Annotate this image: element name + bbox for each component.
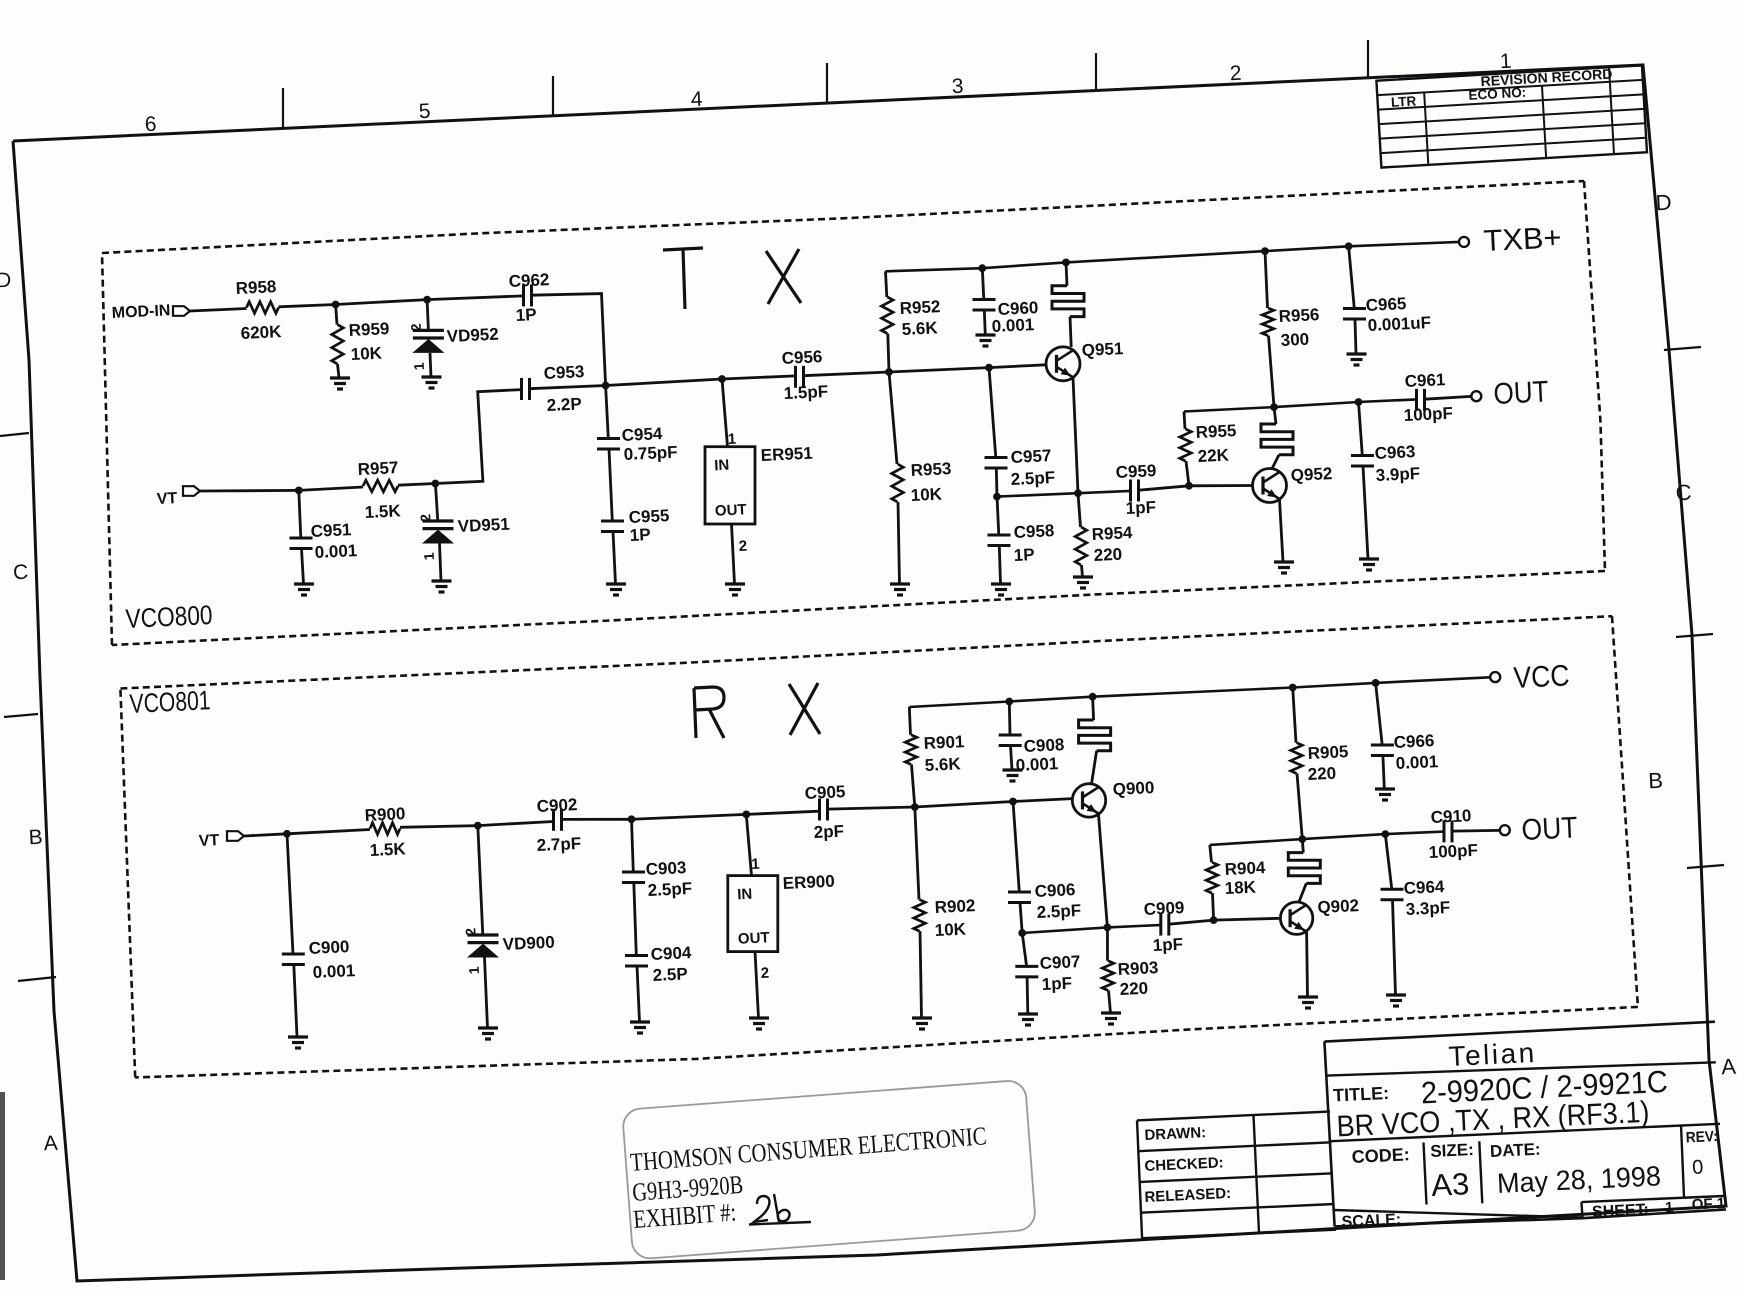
wire R952 bottom lead bbox=[888, 334, 889, 373]
svg-text:0: 0 bbox=[1692, 1156, 1704, 1178]
svg-text:1: 1 bbox=[466, 966, 482, 975]
svg-text:1: 1 bbox=[421, 552, 437, 561]
svg-text:R957: R957 bbox=[357, 458, 398, 479]
svg-text:THOMSON CONSUMER ELECTRONIC: THOMSON CONSUMER ELECTRONIC bbox=[629, 1121, 987, 1177]
wire VD900 to ground bbox=[485, 958, 488, 1029]
ground under VD951 bbox=[432, 579, 452, 582]
wire R953 to ground bbox=[898, 502, 900, 584]
wire resonator2 to Q952 collector bbox=[1272, 455, 1279, 469]
resistor R958 bbox=[247, 302, 279, 314]
junction node R956/resonator2 bbox=[1270, 403, 1278, 411]
wire base rail to Q902 bbox=[1214, 918, 1281, 920]
svg-text:3: 3 bbox=[951, 75, 964, 99]
wire R959 to ground bbox=[338, 364, 340, 378]
svg-text:R959: R959 bbox=[348, 319, 389, 340]
wire Q902 emitter to ground bbox=[1305, 932, 1309, 997]
svg-text:2.5P: 2.5P bbox=[652, 964, 688, 985]
wire C959 to base rail bbox=[1139, 486, 1190, 490]
wire C906 top lead bbox=[1013, 802, 1019, 893]
ground under C955 bbox=[606, 582, 626, 585]
ground under C908 bbox=[1003, 768, 1023, 771]
wire R902 top lead bbox=[915, 807, 919, 900]
zone tick right C/B bbox=[1676, 634, 1713, 637]
svg-text:2pF: 2pF bbox=[813, 822, 844, 842]
wire R957 to VD951 node bbox=[398, 484, 435, 486]
terminal TXB+ bbox=[1459, 237, 1469, 247]
wire to R957 bbox=[299, 487, 363, 490]
svg-text:1P: 1P bbox=[515, 305, 537, 325]
svg-text:R901: R901 bbox=[923, 732, 964, 753]
terminal OUT (TX) bbox=[1471, 391, 1481, 401]
wire C964 to ground bbox=[1393, 900, 1396, 995]
svg-text:REV:: REV: bbox=[1685, 1128, 1718, 1146]
svg-text:C909: C909 bbox=[1143, 898, 1184, 919]
svg-text:1P: 1P bbox=[629, 525, 651, 545]
junction node VD951 top bbox=[432, 480, 440, 488]
svg-text:22K: 22K bbox=[1197, 446, 1230, 466]
svg-text:R905: R905 bbox=[1307, 742, 1348, 763]
zone tick left D/C bbox=[0, 433, 29, 436]
wire Q900 emitter down bbox=[1099, 814, 1108, 927]
capacitor C953 bbox=[520, 378, 523, 400]
svg-text:ER951: ER951 bbox=[760, 444, 813, 465]
svg-text:IN: IN bbox=[714, 457, 730, 475]
drawn/checked/released table bbox=[1137, 1112, 1330, 1121]
junction node R959 top bbox=[332, 301, 340, 309]
big letter T bbox=[663, 248, 703, 250]
wire R954 to ground bbox=[1082, 565, 1083, 577]
wire C954 to C955 bbox=[609, 449, 612, 521]
svg-text:OUT: OUT bbox=[715, 501, 747, 519]
svg-text:IN: IN bbox=[737, 886, 753, 904]
svg-text:RELEASED:: RELEASED: bbox=[1144, 1185, 1231, 1206]
svg-text:ER900: ER900 bbox=[782, 872, 835, 893]
svg-text:1: 1 bbox=[1499, 50, 1512, 74]
wire C903 to C904 bbox=[634, 883, 637, 956]
capacitor C905 bbox=[818, 799, 821, 821]
capacitor C902 bbox=[552, 809, 555, 831]
exhibit underline bbox=[749, 1222, 811, 1225]
svg-text:C963: C963 bbox=[1374, 442, 1415, 463]
svg-text:R953: R953 bbox=[910, 459, 951, 480]
wire VT node up to C953 bbox=[435, 390, 521, 484]
wire node A to C954 bbox=[606, 386, 609, 439]
svg-text:6: 6 bbox=[144, 113, 157, 137]
svg-text:SCALE:: SCALE: bbox=[1341, 1211, 1401, 1231]
junction node R904 bottom bbox=[1210, 916, 1218, 924]
wire C960 top lead bbox=[982, 268, 984, 299]
ground under C966 bbox=[1375, 787, 1395, 790]
svg-text:VCO801: VCO801 bbox=[129, 685, 211, 719]
wire R905 bottom lead bbox=[1297, 774, 1302, 840]
svg-text:LTR: LTR bbox=[1391, 93, 1417, 109]
wire R901 top lead bbox=[909, 707, 910, 735]
svg-text:300: 300 bbox=[1280, 330, 1309, 350]
zone tick top 4/5 bbox=[552, 76, 554, 116]
svg-text:VD900: VD900 bbox=[502, 933, 555, 954]
svg-text:1.5K: 1.5K bbox=[364, 501, 401, 522]
wire C958 top lead bbox=[997, 497, 999, 535]
junction node R903/C909 bbox=[1104, 924, 1112, 932]
titleblock line under Telian bbox=[1327, 1062, 1716, 1075]
svg-text:R954: R954 bbox=[1091, 523, 1133, 544]
ground under R903 bbox=[1101, 1011, 1121, 1014]
ground under VD900 bbox=[478, 1026, 498, 1029]
svg-text:220: 220 bbox=[1307, 764, 1336, 784]
svg-text:TXB+: TXB+ bbox=[1483, 221, 1562, 258]
svg-text:SHEET:: SHEET: bbox=[1592, 1201, 1650, 1221]
svg-text:Q900: Q900 bbox=[1112, 778, 1154, 799]
zone tick right B/A bbox=[1687, 865, 1724, 868]
svg-text:C954: C954 bbox=[621, 424, 663, 445]
junction node C963 top bbox=[1355, 398, 1363, 406]
svg-text:C910: C910 bbox=[1430, 806, 1471, 827]
svg-text:R903: R903 bbox=[1117, 958, 1158, 979]
svg-text:C956: C956 bbox=[781, 347, 822, 368]
svg-text:R956: R956 bbox=[1278, 305, 1319, 326]
wire VD951 top lead bbox=[435, 484, 437, 522]
junction node C906 top bbox=[1009, 798, 1017, 806]
svg-text:C955: C955 bbox=[628, 506, 669, 527]
svg-text:2: 2 bbox=[462, 927, 478, 936]
svg-text:R900: R900 bbox=[364, 804, 405, 825]
wire resonator2 top lead bbox=[1274, 407, 1276, 424]
revision record table bbox=[1376, 64, 1647, 168]
big letter X (RX) bbox=[789, 684, 820, 734]
svg-text:R902: R902 bbox=[934, 896, 975, 917]
zone tick left B/A bbox=[18, 977, 56, 981]
svg-text:C958: C958 bbox=[1013, 521, 1054, 542]
svg-text:1.5pF: 1.5pF bbox=[783, 382, 828, 403]
wire resonator top lead bbox=[1066, 262, 1067, 285]
svg-text:DRAWN:: DRAWN: bbox=[1144, 1124, 1206, 1144]
svg-text:220: 220 bbox=[1119, 979, 1148, 999]
titleblock divider REV bbox=[1681, 1125, 1684, 1197]
svg-text:D: D bbox=[1655, 190, 1672, 216]
svg-text:C959: C959 bbox=[1115, 461, 1156, 482]
svg-text:1.5K: 1.5K bbox=[369, 839, 406, 860]
wire C961 to OUT terminal bbox=[1425, 396, 1472, 399]
wire C953 to node A bbox=[530, 386, 606, 389]
svg-text:VT: VT bbox=[156, 490, 177, 508]
svg-text:1pF: 1pF bbox=[1125, 498, 1156, 518]
wire C958 to ground bbox=[999, 546, 1000, 585]
svg-text:220: 220 bbox=[1093, 545, 1122, 565]
junction node VD952 top bbox=[423, 296, 431, 304]
ground under C907 bbox=[1018, 1012, 1038, 1015]
junction node R905/resonator4 bbox=[1298, 835, 1306, 843]
VCC power rail bbox=[909, 677, 1490, 707]
svg-text:VD951: VD951 bbox=[457, 515, 510, 536]
svg-text:2.7pF: 2.7pF bbox=[536, 834, 581, 855]
svg-text:SIZE:: SIZE: bbox=[1430, 1140, 1474, 1161]
wire resonator to Q900 collector bbox=[1092, 751, 1097, 784]
capacitor C956 bbox=[794, 366, 797, 388]
junction node A (C953/C954/main rail) bbox=[602, 382, 610, 390]
wire C907 to ground bbox=[1026, 977, 1030, 1014]
wire base rail to Q952 bbox=[1189, 484, 1253, 487]
ground under C958 bbox=[991, 582, 1011, 585]
junction node C966 top bbox=[1372, 679, 1380, 687]
svg-text:C: C bbox=[13, 561, 29, 585]
svg-text:Q902: Q902 bbox=[1317, 896, 1359, 917]
TXB+ power rail bbox=[886, 242, 1460, 271]
wire R955 top lead bbox=[1184, 412, 1185, 430]
TX main rail left segment bbox=[606, 376, 796, 386]
transistor Q902 bbox=[1280, 902, 1312, 934]
wire down to ER900 bbox=[746, 814, 751, 875]
wire resonator4 top lead bbox=[1302, 839, 1303, 853]
input terminal VT (TX) bbox=[183, 486, 200, 496]
svg-text:10K: 10K bbox=[934, 920, 967, 940]
svg-text:VT: VT bbox=[198, 832, 219, 850]
svg-text:0.001: 0.001 bbox=[1015, 754, 1058, 775]
wire C908 top lead bbox=[1008, 702, 1012, 736]
wire to R900 bbox=[287, 830, 370, 834]
svg-text:2.2P: 2.2P bbox=[546, 394, 582, 415]
RX main rail left segment bbox=[632, 811, 820, 819]
svg-text:5: 5 bbox=[418, 100, 431, 124]
svg-text:1: 1 bbox=[727, 431, 736, 448]
big letter R bbox=[694, 687, 724, 738]
svg-text:VD952: VD952 bbox=[446, 325, 499, 346]
svg-text:C905: C905 bbox=[804, 782, 845, 803]
svg-text:0.001uF: 0.001uF bbox=[1367, 313, 1431, 335]
wire C966 to ground bbox=[1383, 756, 1384, 790]
svg-text:R904: R904 bbox=[1224, 858, 1266, 879]
wire VD900 top lead bbox=[478, 826, 483, 935]
svg-text:100pF: 100pF bbox=[1428, 841, 1478, 862]
wire R956 top lead bbox=[1265, 251, 1268, 308]
titleblock line under TITLE rows bbox=[1329, 1124, 1721, 1142]
junction node VD900 top bbox=[474, 822, 482, 830]
wire R904 bottom lead bbox=[1213, 893, 1214, 920]
ground under C963 bbox=[1359, 557, 1379, 560]
svg-text:B: B bbox=[1648, 768, 1664, 794]
scanner edge smudge bbox=[0, 1092, 5, 1280]
wire C900 to ground bbox=[294, 965, 297, 1038]
wire VT to C951 node bbox=[200, 489, 299, 492]
input terminal VT (RX) bbox=[227, 831, 244, 841]
zone tick left C/B bbox=[4, 714, 38, 717]
junction node C958 top bbox=[993, 493, 1001, 501]
wire C960 to ground bbox=[984, 310, 985, 335]
wire C909 to base rail bbox=[1169, 920, 1214, 924]
wire R956 bottom lead bbox=[1269, 336, 1275, 408]
svg-text:0.75pF: 0.75pF bbox=[623, 442, 678, 464]
TX main rail right segment to Q951 base bbox=[804, 365, 1046, 376]
zone tick top 3/4 bbox=[826, 63, 828, 103]
svg-text:MOD-IN: MOD-IN bbox=[111, 302, 170, 322]
svg-text:C907: C907 bbox=[1039, 952, 1080, 973]
svg-text:2: 2 bbox=[417, 513, 433, 522]
wire C910 to OUT terminal bbox=[1452, 829, 1500, 832]
svg-text:1P: 1P bbox=[1013, 545, 1035, 565]
svg-text:C964: C964 bbox=[1403, 877, 1445, 898]
zone tick top 2/3 bbox=[1095, 53, 1097, 90]
junction node R901/R902 bbox=[911, 803, 919, 811]
svg-text:C965: C965 bbox=[1365, 294, 1406, 315]
wire C904 to ground bbox=[637, 966, 640, 1022]
emitter rail RX bbox=[1022, 925, 1161, 933]
titleblock divider CODE|SIZE bbox=[1424, 1143, 1427, 1205]
wire R952 top lead bbox=[886, 271, 887, 297]
svg-text:5.6K: 5.6K bbox=[901, 318, 938, 339]
wire VD952 to ground bbox=[430, 353, 431, 377]
wire C906 bottom lead bbox=[1020, 903, 1022, 934]
zone tick top 1/2 bbox=[1367, 40, 1369, 78]
input terminal MOD-IN bbox=[173, 306, 190, 316]
wire VD951 to ground bbox=[440, 544, 442, 582]
junction node C903 top bbox=[628, 815, 636, 823]
wire R905 top lead bbox=[1293, 688, 1296, 743]
svg-text:ECO NO:: ECO NO: bbox=[1468, 85, 1527, 103]
svg-text:100pF: 100pF bbox=[1403, 404, 1453, 425]
wire C965 top lead bbox=[1349, 246, 1355, 308]
svg-text:C903: C903 bbox=[645, 858, 686, 879]
wire C908 to ground bbox=[1011, 746, 1013, 771]
svg-text:Telian: Telian bbox=[1448, 1037, 1538, 1072]
wire C907 top lead bbox=[1022, 933, 1026, 966]
wire R900 to VD900 node bbox=[400, 826, 478, 828]
svg-text:TITLE:: TITLE: bbox=[1333, 1083, 1390, 1106]
wire Q952 emitter to ground bbox=[1280, 500, 1284, 563]
svg-text:C904: C904 bbox=[650, 943, 692, 964]
svg-text:0.001: 0.001 bbox=[991, 315, 1034, 336]
transistor Q900 bbox=[1072, 784, 1105, 817]
ground under C951 bbox=[294, 582, 314, 585]
wire C966 top lead bbox=[1376, 683, 1383, 745]
wire VT to C900 node bbox=[244, 834, 287, 836]
junction node R954/C959 bbox=[1074, 489, 1082, 497]
svg-text:5.6K: 5.6K bbox=[924, 754, 961, 775]
wire ER951 to ground bbox=[732, 524, 735, 584]
svg-text:B: B bbox=[28, 826, 43, 850]
wire C957 top lead bbox=[989, 368, 996, 458]
wire R903 top lead bbox=[1106, 927, 1109, 960]
svg-text:VCO800: VCO800 bbox=[125, 600, 213, 634]
exhibit stamp outline bbox=[622, 1080, 1036, 1260]
svg-text:0.001: 0.001 bbox=[314, 541, 357, 562]
wire C957 bottom lead bbox=[995, 468, 999, 497]
svg-text:A3: A3 bbox=[1430, 1166, 1470, 1203]
wire R954 top lead bbox=[1078, 493, 1081, 527]
wire Q951 emitter down bbox=[1073, 378, 1078, 494]
wire ER900 to ground bbox=[755, 952, 759, 1018]
ground under ER900 bbox=[749, 1016, 769, 1019]
junction node resonator RX bbox=[1089, 693, 1097, 701]
junction node C957 top bbox=[985, 364, 993, 372]
zone tick right D/C bbox=[1664, 347, 1701, 350]
svg-text:10K: 10K bbox=[910, 485, 943, 505]
ground under C965 bbox=[1347, 352, 1367, 355]
ground under R953 bbox=[890, 582, 910, 585]
wire C903 top lead bbox=[632, 819, 634, 872]
svg-text:C951: C951 bbox=[310, 520, 351, 541]
junction node R905 top bbox=[1289, 684, 1297, 692]
svg-text:C957: C957 bbox=[1010, 446, 1051, 467]
wire VD952 top lead bbox=[427, 300, 428, 331]
svg-text:0.001: 0.001 bbox=[1395, 752, 1438, 773]
TX output rail bbox=[1184, 399, 1417, 411]
wire C965 to ground bbox=[1355, 319, 1356, 354]
junction node R956 top bbox=[1261, 247, 1269, 255]
svg-text:A: A bbox=[43, 1132, 58, 1156]
svg-text:VCC: VCC bbox=[1513, 659, 1570, 695]
ground under C960 bbox=[976, 333, 996, 336]
svg-text:3.3pF: 3.3pF bbox=[1405, 898, 1450, 919]
wire MOD-IN to R958 bbox=[190, 309, 247, 312]
zone tick top 5/6 bbox=[282, 88, 284, 128]
ground under R959 bbox=[330, 376, 350, 379]
wire R904 top lead bbox=[1210, 845, 1212, 862]
svg-text:OUT: OUT bbox=[1521, 811, 1578, 847]
transistor Q951 bbox=[1046, 347, 1080, 381]
wire C900 top lead bbox=[287, 834, 293, 954]
wire resonator top lead bbox=[1093, 697, 1094, 720]
junction node C907 top bbox=[1018, 929, 1026, 937]
wire C963 to ground bbox=[1363, 466, 1368, 559]
svg-text:2.5pF: 2.5pF bbox=[1036, 901, 1081, 922]
svg-text:May 28, 1998: May 28, 1998 bbox=[1496, 1160, 1661, 1199]
ground under C900 bbox=[288, 1035, 308, 1038]
svg-text:4: 4 bbox=[690, 88, 703, 112]
junction node C908 top bbox=[1005, 698, 1013, 706]
svg-text:D: D bbox=[0, 269, 12, 293]
wire C951 top lead bbox=[299, 490, 301, 538]
wire to C902 bbox=[478, 822, 554, 826]
svg-text:2.5pF: 2.5pF bbox=[1010, 468, 1055, 489]
svg-text:1pF: 1pF bbox=[1041, 974, 1072, 994]
junction node C965 top bbox=[1345, 242, 1353, 250]
titleblock divider SIZE|DATE bbox=[1479, 1141, 1482, 1203]
wire R959 top lead bbox=[336, 305, 337, 325]
ground under R902 bbox=[912, 1016, 932, 1019]
capacitor C910 bbox=[1443, 820, 1446, 842]
svg-text:10K: 10K bbox=[350, 344, 383, 364]
wire C963 top lead bbox=[1359, 402, 1363, 456]
svg-text:3.9pF: 3.9pF bbox=[1375, 464, 1420, 485]
title block bbox=[1324, 1022, 1715, 1042]
ground under Q952 bbox=[1274, 560, 1294, 563]
svg-text:C953: C953 bbox=[543, 362, 584, 383]
svg-text:2.5pF: 2.5pF bbox=[647, 879, 692, 900]
svg-text:2: 2 bbox=[738, 538, 747, 555]
wire R903 to ground bbox=[1109, 990, 1111, 1013]
svg-text:C902: C902 bbox=[536, 795, 577, 816]
junction node C951 top bbox=[295, 487, 303, 495]
junction node C900 top bbox=[283, 830, 291, 838]
svg-text:C961: C961 bbox=[1404, 370, 1445, 391]
junction node R952/R953 bbox=[885, 368, 893, 376]
wire down to ER951 bbox=[722, 379, 728, 447]
svg-text:C908: C908 bbox=[1023, 735, 1064, 756]
wire C951 to ground bbox=[302, 549, 304, 585]
titleblock divider SHEET row left bbox=[1581, 1202, 1582, 1218]
ground under ER951 bbox=[725, 582, 745, 585]
svg-text:2: 2 bbox=[408, 323, 424, 332]
ground under C904 bbox=[630, 1020, 650, 1023]
resistor R957 bbox=[363, 480, 398, 492]
wire R958 to C962 bbox=[279, 296, 524, 307]
handwritten 2b bbox=[754, 1194, 790, 1222]
terminal OUT (RX) bbox=[1500, 825, 1510, 835]
junction node C960 top bbox=[978, 264, 986, 272]
big letter X (TX) bbox=[766, 251, 801, 303]
RX output rail bbox=[1210, 832, 1444, 845]
svg-text:1: 1 bbox=[1665, 1199, 1674, 1216]
capacitor C959 bbox=[1129, 480, 1132, 502]
